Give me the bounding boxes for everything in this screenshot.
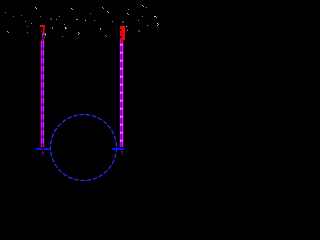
left wire current dots (dark) — [42, 48, 44, 147]
left junction stub — [42, 151, 43, 154]
left electrode arc pixels — [42, 33, 46, 41]
left wire (magenta with blue core) — [40, 41, 45, 147]
left electrode tip (red T) — [40, 25, 45, 34]
spark/noise particles above antenna gap — [5, 5, 159, 37]
AC source V1 (dashed blue circle) — [51, 115, 117, 181]
right wire (blue core, magenta edge) — [119, 40, 124, 147]
right junction stub — [122, 151, 123, 155]
right electrode tip (red block) — [120, 26, 125, 40]
right wire current dots (bright) — [120, 44, 123, 143]
right source lead — [112, 148, 125, 150]
left source lead — [36, 148, 51, 150]
